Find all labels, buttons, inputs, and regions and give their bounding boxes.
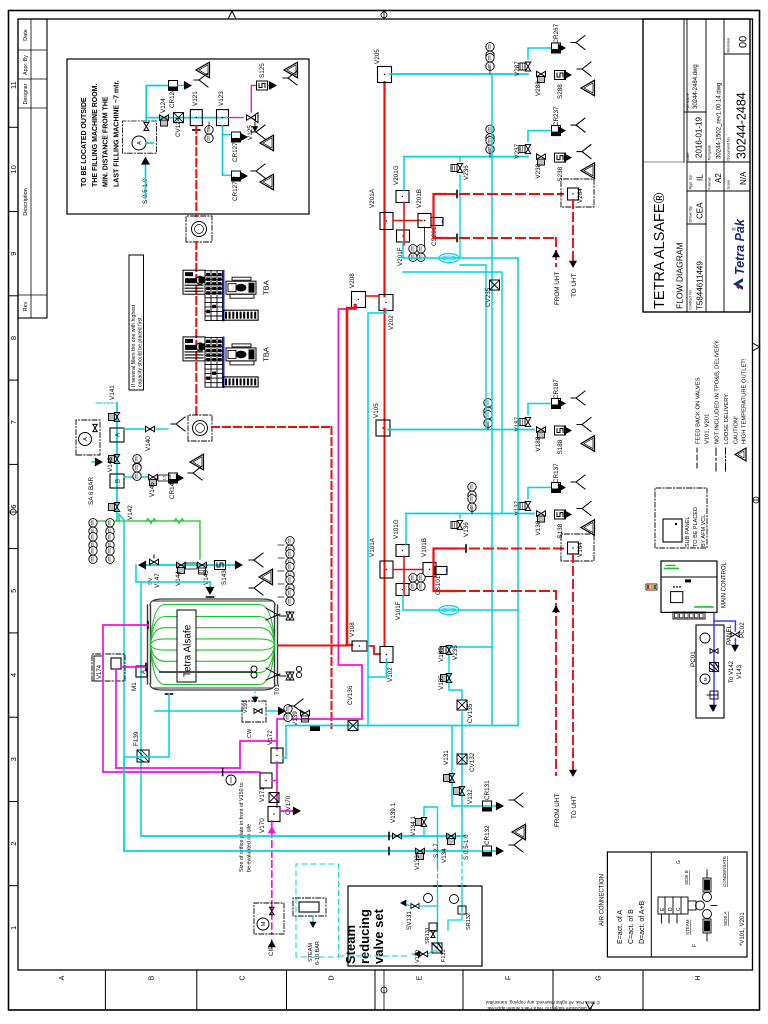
svg-text:S288: S288	[557, 84, 564, 99]
arrow PC02	[734, 639, 736, 645]
centering mark top	[10, 509, 16, 515]
safety valve V147	[150, 559, 159, 564]
svg-text:2016-01-19: 2016-01-19	[695, 117, 704, 158]
chain CV135	[461, 712, 463, 836]
svg-text:V105: V105	[373, 403, 380, 418]
svg-text:M1: M1	[131, 682, 138, 691]
wire riser CR137	[528, 488, 551, 499]
svg-text:V205: V205	[374, 49, 381, 64]
wire vertical 486	[460, 265, 486, 430]
CIP pump	[257, 918, 269, 930]
svg-text:2: 2	[9, 842, 18, 846]
check unit CR237	[552, 126, 561, 136]
svg-text:CR145: CR145	[169, 479, 176, 499]
svg-text:V134: V134	[441, 848, 448, 863]
agitator propeller	[251, 672, 257, 678]
svg-text:B: B	[149, 975, 156, 980]
wire riser CR237	[528, 131, 551, 142]
svg-text:D=act. of A+B: D=act. of A+B	[639, 900, 646, 944]
filler blue line	[223, 337, 225, 387]
wire trunk V137	[406, 513, 534, 515]
steam inlet wire	[412, 953, 417, 955]
pump unit dashed box	[123, 121, 157, 153]
svg-text:A: A	[116, 433, 122, 437]
svg-text:F: F	[506, 976, 513, 980]
svg-text:V147: V147	[154, 573, 161, 588]
package conveyor	[226, 281, 256, 294]
svg-text:V101, V201: V101, V201	[705, 414, 711, 444]
svg-text:Document No: Document No	[727, 137, 731, 160]
svg-text:V172: V172	[267, 730, 274, 745]
V174 inner box	[111, 658, 121, 669]
valve V202	[379, 295, 393, 311]
steam set wire 1	[437, 886, 439, 947]
arrow V150 outlet	[266, 710, 281, 712]
legend caution triangle	[735, 448, 746, 461]
PC01 valve	[710, 649, 718, 654]
control valve CV135	[457, 700, 467, 710]
valve V171	[260, 773, 272, 788]
svg-text:V201A: V201A	[369, 188, 376, 208]
arrow CR127.2	[240, 172, 248, 181]
valve V101A	[380, 561, 393, 578]
warning triangle S188	[581, 436, 595, 452]
svg-text:STEAM: STEAM	[685, 919, 690, 935]
check unit CR267	[552, 43, 561, 53]
svg-text:S 0.5-1.0: S 0.5-1.0	[463, 834, 470, 860]
svg-text:D: D	[329, 975, 336, 980]
steam supply dashed boundary	[296, 864, 339, 957]
svg-text:V287: V287	[514, 61, 521, 76]
wire V140 branch	[124, 428, 144, 430]
svg-text:C=act. of B: C=act. of B	[628, 909, 635, 944]
centering mark bottom	[753, 497, 759, 503]
svg-text:G: G	[596, 975, 603, 980]
magenta outlet arrow	[280, 810, 296, 812]
thick red from V208	[347, 305, 355, 645]
arrow spray into tank	[209, 582, 211, 590]
wire spray drop to bottom mains	[140, 582, 142, 836]
wire V202 drain	[368, 309, 386, 726]
wire V147 riser	[135, 565, 137, 582]
wire V101F drop	[402, 596, 404, 611]
control valve CV132	[457, 754, 467, 764]
svg-text:TETRA ALSAFE®: TETRA ALSAFE®	[652, 192, 668, 309]
svg-text:S188: S188	[557, 439, 564, 454]
arrow S188	[564, 426, 572, 435]
check unit CR137	[552, 483, 561, 493]
unit S188	[555, 426, 566, 435]
wire V172 riser cyan	[283, 757, 286, 759]
svg-text:H: H	[695, 975, 702, 980]
svg-text:V132: V132	[467, 789, 474, 804]
steam set wire join	[448, 914, 462, 930]
svg-text:00: 00	[738, 36, 750, 48]
pressure gauge B	[450, 895, 459, 904]
tank leg valve upper	[266, 608, 286, 620]
svg-text:MAIN CONTROL: MAIN CONTROL	[722, 561, 728, 608]
valve PC02	[731, 632, 739, 637]
tank nozzle ticks	[147, 622, 149, 629]
revision table	[18, 19, 47, 318]
valve V142	[114, 503, 119, 512]
arrow CR145	[176, 474, 184, 483]
valve V201A	[380, 213, 393, 230]
wire V145 branch	[124, 476, 148, 478]
svg-text:CS201: CS201	[431, 226, 438, 246]
load cells	[296, 672, 301, 677]
grid row ticks left margin	[104, 970, 106, 1010]
svg-text:Appr. By: Appr. By	[23, 55, 29, 75]
svg-text:V144: V144	[175, 571, 182, 586]
svg-text:Size of orifice plate in front: Size of orifice plate in front of V150 t…	[239, 782, 245, 872]
svg-text:CAUTION!: CAUTION!	[734, 416, 740, 444]
svg-text:Date: Date	[23, 29, 29, 41]
svg-text:A2: A2	[714, 173, 723, 183]
svg-text:SR131: SR131	[425, 927, 431, 944]
outlet Y S288	[577, 62, 591, 76]
check unit CR187	[552, 399, 561, 409]
reducing valve SR132	[458, 906, 466, 914]
steam block CS201	[431, 218, 443, 226]
arrow S238	[564, 153, 572, 162]
warning triangle S125	[284, 62, 298, 78]
svg-text:Rev: Rev	[23, 301, 29, 311]
svg-text:G: G	[676, 860, 682, 864]
relief valve SV131	[411, 904, 419, 909]
arrow S143 outlet	[235, 561, 243, 570]
valve V187	[525, 418, 530, 427]
svg-text:A: A	[83, 437, 89, 441]
outlet Y CR132	[509, 838, 523, 852]
tank T01 Tetra Alsafe	[131, 599, 281, 695]
warning triangle tank spray	[259, 569, 273, 585]
dashed entries to steam set	[437, 867, 439, 886]
reducing valve SR131	[429, 923, 437, 931]
legend feed back on valves	[696, 448, 698, 468]
outfeed comb conveyor	[224, 377, 259, 387]
svg-text:30244-2484.dwg: 30244-2484.dwg	[693, 64, 699, 109]
svg-text:CIP: CIP	[268, 946, 275, 957]
svg-text:CR137: CR137	[553, 463, 560, 483]
wire long vertical 492	[491, 74, 493, 726]
check unit CR124	[169, 81, 178, 91]
CW supply arrow	[254, 692, 256, 700]
safety valve V147 line	[140, 564, 236, 566]
svg-text:V138: V138	[535, 520, 542, 535]
valve V138	[537, 511, 546, 516]
svg-text:11: 11	[9, 81, 18, 89]
red from tank outlet	[278, 645, 347, 647]
svg-text:To V142: To V142	[729, 660, 735, 683]
svg-text:V238: V238	[535, 163, 542, 178]
supply dashdot stub	[96, 402, 117, 404]
svg-text:NOT INCLUDED IN TPO&B, DELIVER: NOT INCLUDED IN TPO&B, DELIVERY	[715, 340, 721, 444]
svg-text:FROM UHT: FROM UHT	[554, 272, 561, 305]
svg-text:F131: F131	[441, 949, 447, 962]
feed line to fillers dashed	[195, 126, 197, 216]
wire V201F drop	[402, 242, 404, 258]
svg-text:SV: SV	[148, 577, 154, 585]
filler infeed block	[183, 337, 205, 361]
tank instrument column	[286, 545, 294, 553]
svg-text:M: M	[261, 921, 267, 926]
warning triangle V145	[190, 454, 204, 470]
steam supply dashes to V130	[339, 955, 410, 957]
svg-text:V102: V102	[387, 667, 394, 682]
svg-text:PC01: PC01	[690, 651, 697, 667]
wire riser CR187	[528, 404, 551, 415]
svg-text:CV136: CV136	[347, 685, 354, 705]
red cross V201	[393, 220, 422, 222]
arrow CR237	[558, 126, 566, 135]
valve V235	[446, 646, 451, 655]
utility column wire	[116, 403, 118, 521]
agitator motor A	[136, 666, 147, 677]
valve V141	[114, 413, 119, 422]
valve V133	[416, 848, 425, 853]
arrow S288	[564, 71, 572, 80]
svg-text:SIDE A: SIDE A	[723, 911, 728, 926]
filler tower	[205, 271, 223, 321]
svg-text:V264: V264	[577, 188, 584, 203]
svg-text:Steam: Steam	[343, 925, 358, 964]
svg-text:5: 5	[9, 589, 18, 593]
valve V148	[114, 455, 119, 464]
control valve CV235	[490, 280, 500, 290]
suction arrow	[145, 160, 147, 198]
svg-text:B: B	[116, 479, 122, 483]
check unit CR127.1	[232, 132, 241, 142]
svg-text:TO UHT: TO UHT	[571, 796, 578, 819]
product line V205 trunk red	[383, 82, 385, 296]
heater tag 1.5kW	[158, 475, 170, 481]
svg-text:TO BE LOCATED OUTSIDE: TO BE LOCATED OUTSIDE	[81, 97, 88, 187]
unit B box	[110, 474, 124, 488]
valve V145	[149, 474, 158, 479]
red cross V101	[393, 569, 422, 571]
svg-text:9: 9	[9, 252, 18, 256]
valve V123	[217, 110, 229, 126]
wire V102 drain	[368, 659, 387, 677]
svg-text:T01: T01	[274, 684, 281, 695]
long line 851	[124, 850, 465, 852]
svg-text:6: 6	[9, 504, 18, 508]
svg-text:V174: V174	[97, 664, 103, 679]
wire spray line	[136, 581, 210, 583]
valve V134.1	[421, 818, 426, 827]
svg-text:C: C	[676, 907, 682, 911]
long line 836	[141, 835, 465, 837]
svg-text:Date: Date	[686, 152, 690, 160]
PC01 regulator	[710, 691, 718, 699]
svg-text:V188: V188	[535, 436, 542, 451]
wire V125 to S125	[251, 86, 256, 113]
dashed UHT line 4	[456, 590, 556, 592]
outlet Y S138	[577, 502, 591, 516]
control valve CV136	[348, 721, 358, 731]
tank label box	[177, 610, 196, 682]
check unit CR131	[483, 801, 492, 811]
valve V121	[190, 110, 202, 126]
svg-text:V236: V236	[463, 165, 470, 180]
reducer sight glass V201	[439, 254, 459, 263]
edge arrow mark left	[586, 1002, 594, 1010]
svg-text:Revision: Revision	[727, 38, 731, 53]
valve V287	[525, 62, 530, 71]
arrow CR187	[558, 399, 566, 408]
svg-text:File Name: File Name	[686, 93, 690, 110]
wire main B2	[286, 725, 518, 727]
svg-text:V235: V235	[452, 645, 459, 660]
arrow CR124 outlet	[178, 85, 188, 87]
wire V123 branch down	[222, 126, 224, 175]
centering mark left	[381, 987, 387, 993]
control valve CV124	[174, 113, 184, 123]
wire reducer line V101	[403, 609, 518, 611]
check unit CR145	[169, 473, 178, 483]
svg-text:V121: V121	[192, 91, 199, 106]
valve V132	[459, 787, 464, 796]
green sample line	[119, 514, 200, 559]
PC01 gauge	[700, 633, 710, 643]
svg-text:V131: V131	[443, 750, 450, 765]
valve V102	[380, 647, 393, 663]
dashed line to sterile air	[212, 426, 332, 428]
red bracket CS201	[434, 194, 447, 238]
svg-text:PANEL: PANEL	[726, 624, 733, 645]
note box filling machine room	[67, 59, 309, 214]
flow instrument dashed box upper	[186, 216, 212, 242]
svg-text:CR267: CR267	[553, 23, 560, 43]
main control PLC	[661, 561, 717, 612]
outlet Y CR267	[571, 36, 585, 50]
steam supply silencer	[293, 898, 326, 916]
svg-text:STEAM: STEAM	[308, 943, 314, 962]
svg-text:F: F	[692, 944, 698, 947]
check unit CR127.2	[232, 171, 241, 181]
svg-text:V124: V124	[160, 98, 167, 113]
flow instrument dashed box lower	[188, 415, 212, 441]
dashed UHT line 1	[446, 193, 563, 195]
outfeed comb conveyor	[224, 310, 259, 320]
PC01 filter	[710, 663, 719, 672]
svg-text:1.5: 1.5	[163, 476, 167, 481]
air connection box	[607, 852, 747, 957]
valve V140	[146, 426, 155, 431]
svg-text:V134.1: V134.1	[410, 816, 417, 836]
svg-text:V135: V135	[438, 675, 445, 690]
valve V124	[160, 115, 169, 120]
svg-text:V171: V171	[259, 787, 266, 802]
wire V134.1 branch	[423, 828, 425, 836]
wire V123 to V125 magenta	[228, 117, 244, 119]
wire pump to trunk	[145, 118, 147, 121]
legend loose delivery	[725, 448, 727, 471]
steam set wire 2	[461, 886, 463, 912]
svg-text:V202: V202	[388, 315, 395, 330]
magenta tank top outer	[103, 625, 256, 772]
svg-text:LOOSE DELIVERY: LOOSE DELIVERY	[724, 394, 730, 444]
wire long vertical 518	[517, 258, 519, 726]
valve V139 cluster	[284, 713, 292, 721]
edge arrow mark right	[228, 11, 236, 19]
svg-text:HIGH TEMPERATURE OUTLET!: HIGH TEMPERATURE OUTLET!	[742, 358, 748, 444]
wire V140 outlet	[156, 428, 168, 430]
air supply pump	[79, 433, 92, 446]
valve V144	[177, 562, 186, 567]
magenta to V150 stub	[240, 741, 277, 768]
air supply unit dashed box	[76, 420, 100, 455]
valve V105	[376, 420, 390, 436]
svg-text:6-10 BAR: 6-10 BAR	[315, 941, 321, 965]
svg-text:10: 10	[9, 165, 18, 173]
dashed drop TO UHT 1	[572, 200, 574, 264]
wire V208 to V202	[366, 295, 379, 297]
wire branch CR127.1	[223, 134, 232, 136]
agitator shaft	[160, 671, 252, 673]
svg-text:V208: V208	[349, 273, 356, 288]
svg-text:V201B: V201B	[416, 189, 423, 208]
svg-text:V201G: V201G	[393, 165, 400, 185]
valve V135	[446, 674, 451, 683]
wire main trunk	[146, 117, 226, 119]
wire trunk V205 outlet	[390, 73, 528, 75]
svg-text:CV135: CV135	[467, 703, 474, 723]
unit V164 dashed box	[561, 534, 594, 561]
svg-text:PC02: PC02	[739, 622, 746, 638]
svg-text:D: D	[668, 907, 674, 911]
svg-text:T5844611449: T5844611449	[696, 261, 705, 310]
outlet Y S125	[283, 71, 297, 85]
dashed drop TO UHT 2	[572, 554, 574, 773]
svg-text:V288: V288	[535, 81, 542, 96]
wire tank drop to mains	[124, 711, 169, 851]
warning triangle CR132	[512, 824, 526, 840]
svg-text:CV170: CV170	[285, 795, 292, 815]
arrow CR127.1	[240, 133, 248, 142]
red trunk mid	[384, 309, 386, 645]
svg-text:V143: V143	[737, 664, 743, 679]
air valve drawing	[658, 870, 717, 941]
CIP arrow	[268, 940, 276, 947]
svg-text:SR132: SR132	[466, 913, 472, 930]
sub panel inner box	[663, 519, 682, 542]
svg-text:FROM UHT: FROM UHT	[554, 794, 561, 827]
wire V172 chain	[276, 762, 278, 807]
arrow steam supply	[312, 916, 314, 924]
filling machine TBA 2	[183, 337, 258, 387]
wire utility drop to bottom mains	[119, 514, 124, 851]
arrow CR137	[558, 483, 566, 492]
outlet Y CR127.1	[251, 125, 265, 139]
PLC status leds	[646, 584, 657, 590]
filling machine TBA 1	[183, 270, 258, 320]
green sample zigzag 1	[146, 519, 156, 524]
svg-text:CV132: CV132	[469, 752, 476, 772]
svg-text:CR131: CR131	[484, 780, 491, 800]
svg-text:V164: V164	[577, 542, 584, 557]
svg-text:Drawn By: Drawn By	[689, 206, 693, 223]
unit S238	[555, 153, 566, 162]
filler tower	[205, 337, 223, 387]
pneumatic line blue	[714, 612, 735, 631]
instruments trunk 3	[484, 407, 492, 415]
valve V236	[457, 164, 462, 173]
filter F139	[137, 750, 149, 762]
dashed line down right	[331, 427, 333, 728]
unit S288	[555, 71, 566, 80]
